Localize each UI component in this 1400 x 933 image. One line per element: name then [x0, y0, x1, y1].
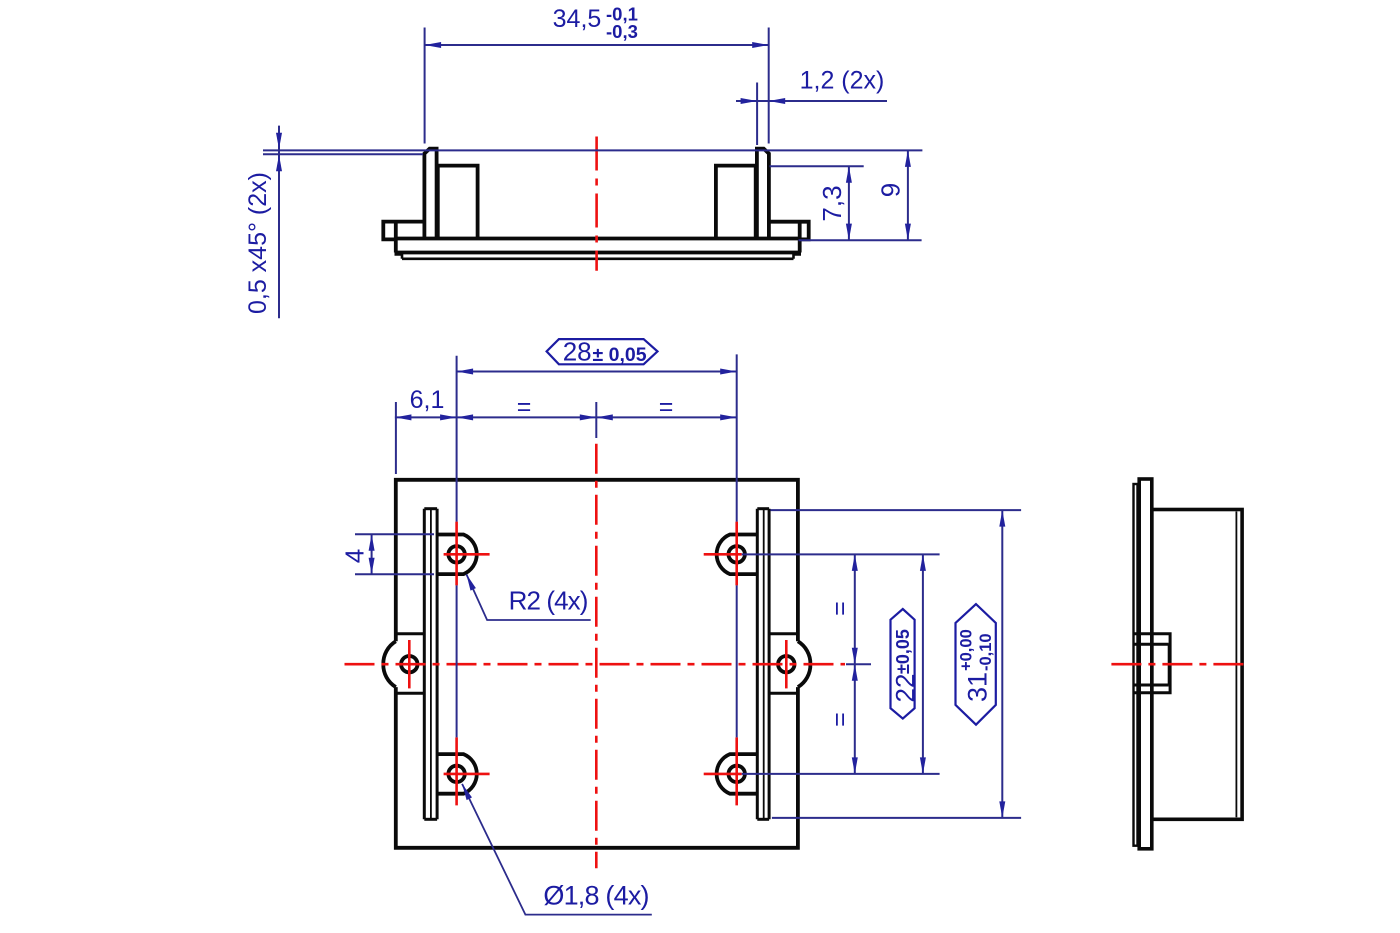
- plan view: hole centerline cross: [444, 773, 490, 776]
- svg-text:9: 9: [876, 183, 906, 197]
- plan view: hole 1,8 bottom-left: [448, 766, 464, 782]
- dimension 28 extension lines (hole columns, blue parts): [456, 356, 458, 522]
- svg-text:4: 4: [340, 549, 370, 563]
- plan view: hole centerline cross: [444, 553, 490, 556]
- plan view: right rail (wall seen from top): [756, 509, 759, 820]
- side view: base plate edge strip: [1139, 479, 1152, 849]
- plan view: horizontal centerline: [345, 663, 846, 666]
- dimension 4 extension lines: [355, 533, 434, 535]
- plan view: hole centerline cross: [704, 553, 742, 556]
- svg-text:1,2 (2x): 1,2 (2x): [800, 67, 885, 95]
- dimension 4 line with arrows: [371, 534, 373, 574]
- side view: mid ear boss inner lines: [1134, 643, 1169, 646]
- top view: right latch block: [716, 166, 756, 239]
- dimension 0,5x45 line with arrows: [278, 126, 280, 319]
- dimension 31 hexagon frame: [956, 604, 996, 725]
- plan view: hole 1,8 left mid ear: [401, 656, 417, 672]
- svg-text:=: =: [659, 393, 674, 421]
- dimension 9 extension line: [799, 239, 922, 241]
- top view: left ear pad shelf: [383, 222, 424, 240]
- svg-text:± 0,05: ± 0,05: [593, 344, 647, 366]
- plan centerline extension stub (blue): [595, 402, 597, 438]
- top view: thin bottom plate: [396, 253, 800, 259]
- plan view: right ear hole vertical centerline: [785, 640, 788, 688]
- plan view: hole centerline cross: [704, 773, 742, 776]
- plan view: hole 1,8 top-left: [448, 546, 464, 562]
- plan view: right mid ear bump: [798, 641, 811, 687]
- svg-text:6,1: 6,1: [410, 386, 445, 414]
- svg-text:28: 28: [563, 337, 592, 367]
- dimension 22 line with arrows: [922, 554, 924, 774]
- plan view: bottom-left hole ear (R2): [437, 754, 477, 794]
- dimension 6,1 / = dimension line: [395, 416, 737, 418]
- dimension 28 hexagon frame: [547, 339, 658, 364]
- top view: left latch block: [438, 166, 478, 239]
- svg-text:Ø1,8 (4x): Ø1,8 (4x): [543, 881, 648, 911]
- dimension 31 line with arrows: [1001, 510, 1003, 818]
- svg-text:=: =: [826, 601, 854, 616]
- chamfer extension lines: [263, 149, 922, 151]
- plan view: right mid ear pad edges: [769, 632, 798, 635]
- svg-text:-0,10: -0,10: [977, 633, 995, 671]
- top view: right wall with chamfer: [757, 149, 769, 239]
- plan view: hole 1,8 top-right: [729, 546, 745, 562]
- dimension 6,1 extension line: [395, 402, 397, 474]
- top view: right ear pad shelf: [769, 222, 809, 240]
- plan view: outer plate rectangle (edges interrupted at ear bumps): [396, 480, 798, 848]
- svg-text:7,3: 7,3: [817, 185, 847, 221]
- plan view: hole column centerline left (red parts): [455, 522, 458, 586]
- svg-text:-0,3: -0,3: [606, 21, 638, 42]
- label R2 (4x) leader: [466, 574, 590, 620]
- plan view: left mid ear pad edges: [396, 632, 425, 635]
- side view: mid ear boss outer: [1135, 634, 1171, 693]
- side view: horizontal centerline: [1111, 663, 1250, 666]
- = equality vertical dimension line: [854, 554, 856, 774]
- plan view: hole 1,8 bottom-right: [729, 766, 745, 782]
- side view: thin bottom plate strip: [1134, 484, 1138, 846]
- dimension 9 line with arrows: [907, 150, 909, 240]
- dimension 34,5 line with arrows: [425, 44, 769, 46]
- dimension 7,3 line with arrows: [848, 166, 850, 240]
- plan view: left mid ear bump: [383, 641, 396, 687]
- dimension 1,2 extension line: [756, 83, 758, 146]
- right side extension lines: [770, 509, 1021, 511]
- plan view: top-left hole ear (R2): [437, 535, 477, 575]
- svg-text:R2 (4x): R2 (4x): [509, 585, 588, 615]
- svg-text:+0,00: +0,00: [958, 629, 976, 671]
- label diameter 1,8 leader: [462, 784, 652, 915]
- svg-text:22: 22: [890, 674, 920, 703]
- svg-text:31: 31: [963, 672, 993, 702]
- side view: chamfer line: [1235, 512, 1237, 818]
- top view: left wall with chamfer: [424, 149, 436, 239]
- side view: body rectangle: [1152, 510, 1242, 820]
- plan view: bottom-right hole ear (R2): [717, 754, 758, 794]
- plan view: left ear hole vertical centerline: [408, 640, 411, 688]
- top view: base plate: [396, 222, 800, 253]
- svg-text:34,5: 34,5: [553, 5, 602, 33]
- plan view: vertical centerline: [595, 444, 598, 869]
- dimension 1,2 line with outside arrows: [736, 100, 887, 102]
- plan view: left rail (wall seen from top): [423, 509, 426, 820]
- dimension 7,3 extension line: [770, 165, 864, 167]
- plan view: hole 1,8 right mid ear: [778, 656, 794, 672]
- svg-text:=: =: [517, 393, 532, 421]
- svg-text:±0,05: ±0,05: [893, 629, 913, 674]
- plan view: top-right hole ear (R2): [717, 535, 758, 575]
- top view: vertical centerline: [595, 137, 598, 271]
- plan view: hole column centerline right (red parts): [735, 522, 738, 586]
- dimension 28 line with arrows: [457, 371, 737, 373]
- dimension 34,5 extension lines: [424, 28, 426, 144]
- svg-text:=: =: [826, 712, 854, 727]
- dimension 22 hexagon frame: [891, 609, 915, 719]
- svg-text:0,5 x45° (2x): 0,5 x45° (2x): [244, 172, 272, 314]
